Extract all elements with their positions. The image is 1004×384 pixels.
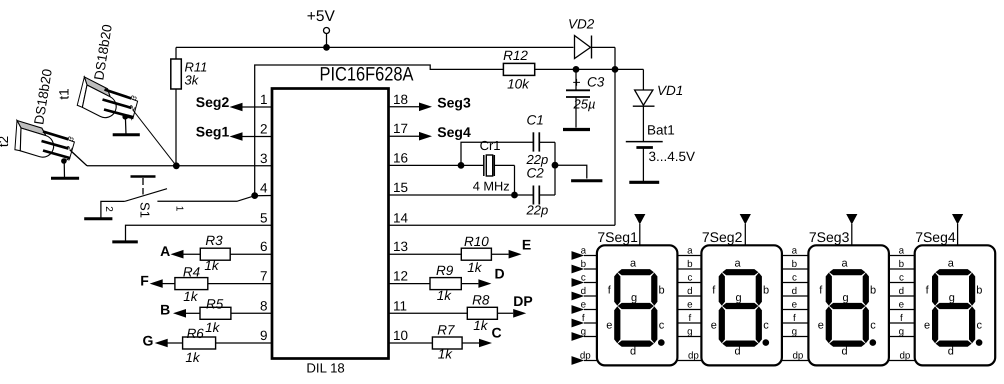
svg-text:e: e bbox=[818, 320, 824, 332]
display 7Seg1 common anode arrow bbox=[634, 214, 645, 245]
svg-text:e: e bbox=[711, 320, 717, 332]
wire 1-wire bus pin3 bbox=[70, 150, 272, 166]
svg-text:a: a bbox=[899, 245, 905, 256]
node label Seg3 bbox=[437, 94, 471, 110]
svg-text:a: a bbox=[948, 258, 955, 270]
svg-text:6: 6 bbox=[260, 239, 268, 254]
svg-text:1k: 1k bbox=[467, 260, 483, 275]
resistor R4 segment F bbox=[140, 265, 272, 305]
node label Seg2 bbox=[196, 94, 230, 110]
svg-text:c: c bbox=[792, 272, 797, 283]
t1 pin digits bbox=[125, 94, 139, 122]
svg-text:1k: 1k bbox=[185, 350, 201, 365]
svg-text:b: b bbox=[763, 285, 769, 297]
svg-text:7Seg4: 7Seg4 bbox=[915, 229, 956, 245]
svg-text:1: 1 bbox=[174, 206, 185, 212]
wire crystal right to pin15 bbox=[494, 165, 514, 195]
t2 pin digits bbox=[62, 135, 76, 163]
wire S1 to pin4 bbox=[157, 196, 272, 202]
svg-text:3...4.5V: 3...4.5V bbox=[649, 149, 696, 164]
svg-text:1k: 1k bbox=[205, 320, 221, 335]
svg-text:7Seg3: 7Seg3 bbox=[809, 229, 850, 245]
svg-text:Seg2: Seg2 bbox=[196, 94, 230, 110]
wire pin17 Seg4 bbox=[389, 132, 433, 141]
svg-text:22p: 22p bbox=[526, 203, 549, 218]
svg-text:17: 17 bbox=[393, 121, 408, 136]
node label Seg4 bbox=[437, 124, 471, 140]
svg-text:PIC16F628A: PIC16F628A bbox=[320, 64, 414, 86]
display 7Seg2 body bbox=[701, 229, 782, 366]
svg-text:b: b bbox=[976, 285, 982, 297]
label t1 bbox=[57, 88, 72, 99]
node pin4 junction bbox=[251, 192, 258, 199]
svg-text:e: e bbox=[899, 299, 905, 310]
svg-text:R6: R6 bbox=[187, 326, 205, 341]
node osc ground junction bbox=[552, 162, 559, 169]
resistor R6 segment G bbox=[143, 326, 272, 365]
svg-text:t2: t2 bbox=[0, 136, 11, 147]
node VDD cross bbox=[612, 66, 619, 73]
resistor R8 segment DP bbox=[389, 293, 533, 334]
svg-text:e: e bbox=[581, 299, 587, 310]
node bus junction bbox=[173, 162, 180, 169]
svg-text:d: d bbox=[687, 286, 692, 297]
wire +5V rail bbox=[176, 47, 574, 59]
display 7Seg3 input lines bbox=[782, 245, 809, 361]
svg-text:dp: dp bbox=[688, 350, 699, 361]
wire t1 ground lead bbox=[124, 117, 127, 135]
node pin16 junction bbox=[458, 162, 465, 169]
wire t2 data diagonal bbox=[70, 150, 87, 166]
diode VD2 bbox=[568, 17, 595, 59]
wire pin5 to ground bbox=[126, 225, 273, 240]
svg-text:+: + bbox=[573, 74, 581, 90]
svg-text:Bat1: Bat1 bbox=[647, 123, 675, 138]
svg-text:1k: 1k bbox=[204, 258, 220, 273]
svg-text:a: a bbox=[792, 245, 798, 256]
resistor R7 segment C bbox=[389, 323, 502, 362]
svg-text:g: g bbox=[735, 292, 741, 304]
display 7Seg3 body bbox=[808, 229, 889, 366]
temperature sensor t2 DS18b20 package bbox=[9, 121, 58, 161]
svg-text:d: d bbox=[841, 346, 847, 358]
svg-text:G: G bbox=[143, 333, 154, 349]
svg-text:1k: 1k bbox=[183, 289, 199, 304]
svg-text:R9: R9 bbox=[436, 263, 454, 278]
display 7Seg4 input lines bbox=[889, 245, 915, 361]
svg-text:A: A bbox=[160, 243, 170, 259]
svg-text:DP: DP bbox=[513, 293, 532, 309]
svg-text:12: 12 bbox=[393, 269, 408, 284]
svg-text:dp: dp bbox=[899, 350, 910, 361]
svg-text:18: 18 bbox=[393, 92, 408, 107]
svg-text:10: 10 bbox=[393, 328, 408, 343]
capacitor C2 bbox=[526, 166, 556, 218]
display 7Seg4 body bbox=[915, 229, 996, 366]
svg-text:DIL 18: DIL 18 bbox=[306, 360, 344, 375]
resistor R11 bbox=[171, 59, 208, 166]
svg-text:7Seg2: 7Seg2 bbox=[702, 229, 743, 245]
display 7Seg1 digit segments bbox=[606, 258, 665, 358]
label t1 DS18b20 bbox=[91, 23, 115, 81]
svg-text:3k: 3k bbox=[185, 73, 200, 88]
wire R12 to VD1 bbox=[535, 69, 644, 89]
ground S1 bbox=[84, 217, 112, 220]
svg-text:10k: 10k bbox=[507, 77, 530, 92]
svg-text:R5: R5 bbox=[206, 297, 224, 312]
label t2 DS18b20 bbox=[31, 68, 55, 126]
svg-text:R7: R7 bbox=[437, 323, 455, 338]
display 7Seg4 digit segments bbox=[924, 258, 983, 358]
svg-text:C: C bbox=[491, 325, 501, 341]
ground t2 bbox=[51, 177, 79, 180]
node C3 tap bbox=[573, 66, 580, 73]
svg-text:a: a bbox=[630, 258, 637, 270]
svg-text:d: d bbox=[630, 346, 636, 358]
resistor R5 segment B bbox=[160, 297, 272, 336]
resistor R12 bbox=[503, 48, 535, 92]
svg-text:1k: 1k bbox=[438, 347, 454, 362]
svg-text:F: F bbox=[140, 273, 149, 289]
node label Seg1 bbox=[196, 123, 230, 139]
wire osc to ground bbox=[555, 165, 587, 178]
svg-text:b: b bbox=[581, 259, 587, 270]
svg-text:g: g bbox=[899, 326, 904, 337]
wire t2 pins 1+3 tie bbox=[64, 140, 74, 161]
svg-text:1k: 1k bbox=[437, 288, 453, 303]
ground C3 bbox=[563, 128, 590, 131]
ground t1 bbox=[113, 133, 140, 136]
display 7Seg1 body bbox=[597, 229, 678, 366]
svg-text:a: a bbox=[581, 245, 587, 256]
wire t2 ground lead bbox=[63, 161, 65, 178]
svg-text:c: c bbox=[659, 320, 665, 332]
display 7Seg2 common anode arrow bbox=[740, 214, 751, 245]
svg-text:4 MHz: 4 MHz bbox=[473, 179, 510, 194]
resistor R10 segment E bbox=[389, 234, 532, 275]
svg-text:Seg1: Seg1 bbox=[196, 123, 230, 139]
svg-text:f: f bbox=[582, 313, 585, 324]
wire pin18 Seg3 bbox=[389, 103, 433, 112]
svg-text:d: d bbox=[899, 286, 904, 297]
wire VD2 cathode to VDD bbox=[592, 47, 616, 225]
svg-text:Seg4: Seg4 bbox=[437, 124, 471, 140]
display 7Seg1 input lines with arrows bbox=[572, 245, 597, 365]
svg-text:15: 15 bbox=[393, 180, 408, 195]
svg-text:11: 11 bbox=[393, 298, 407, 313]
svg-text:16: 16 bbox=[393, 150, 408, 165]
wire osc top bbox=[461, 142, 533, 165]
svg-text:e: e bbox=[687, 299, 693, 310]
svg-text:VD1: VD1 bbox=[657, 83, 683, 98]
svg-text:25µ: 25µ bbox=[573, 97, 596, 112]
svg-text:c: c bbox=[977, 320, 983, 332]
svg-text:7Seg1: 7Seg1 bbox=[597, 229, 638, 245]
svg-text:c: c bbox=[581, 272, 586, 283]
svg-text:t1: t1 bbox=[57, 88, 72, 99]
svg-text:g: g bbox=[949, 292, 955, 304]
pin numbers bbox=[260, 92, 409, 343]
node pin15 junction bbox=[511, 192, 518, 199]
svg-text:a: a bbox=[841, 258, 848, 270]
t1 leads bbox=[103, 90, 134, 118]
svg-text:c: c bbox=[763, 320, 769, 332]
wire pin15 bbox=[389, 194, 534, 196]
+5V supply terminal bbox=[307, 8, 336, 47]
svg-text:13: 13 bbox=[393, 239, 408, 254]
svg-text:c: c bbox=[687, 272, 692, 283]
svg-text:e: e bbox=[924, 320, 930, 332]
svg-text:R4: R4 bbox=[183, 265, 200, 280]
svg-text:B: B bbox=[160, 302, 170, 318]
svg-text:E: E bbox=[522, 237, 531, 253]
battery Bat1 bbox=[626, 123, 695, 182]
display 7Seg2 input lines bbox=[677, 245, 701, 361]
svg-text:C2: C2 bbox=[527, 166, 545, 181]
svg-text:a: a bbox=[687, 245, 693, 256]
svg-text:g: g bbox=[687, 326, 692, 337]
svg-text:Cr1: Cr1 bbox=[480, 138, 501, 153]
display 7Seg3 digit segments bbox=[818, 258, 877, 358]
diode VD1 bbox=[633, 83, 683, 141]
svg-text:g: g bbox=[792, 326, 797, 337]
wire S1 left contact to ground bbox=[101, 201, 125, 218]
label t2 bbox=[0, 136, 11, 147]
svg-text:R10: R10 bbox=[464, 234, 489, 249]
svg-text:VD2: VD2 bbox=[568, 17, 595, 32]
S1 contact digits bbox=[103, 206, 185, 213]
svg-text:Seg3: Seg3 bbox=[437, 94, 471, 110]
svg-text:c: c bbox=[870, 320, 876, 332]
node +5V junction bbox=[323, 44, 330, 51]
node t1 ground tie bbox=[122, 114, 128, 120]
wire pin1 Seg2 bbox=[230, 103, 273, 112]
svg-text:dp: dp bbox=[580, 350, 591, 361]
wire t1 pins 1+3 tie bbox=[125, 99, 137, 119]
svg-text:9: 9 bbox=[260, 328, 268, 343]
wire MCLR pull-up bbox=[255, 65, 504, 196]
svg-text:7: 7 bbox=[260, 269, 268, 284]
svg-text:R8: R8 bbox=[472, 293, 490, 308]
svg-text:2: 2 bbox=[103, 206, 114, 212]
svg-text:e: e bbox=[792, 299, 798, 310]
wire t1 data diagonal bbox=[133, 110, 177, 166]
svg-text:3: 3 bbox=[260, 151, 268, 166]
svg-text:1k: 1k bbox=[473, 318, 489, 333]
svg-text:b: b bbox=[687, 259, 693, 270]
svg-text:b: b bbox=[792, 259, 798, 270]
wire pin14 VDD bbox=[389, 224, 616, 226]
svg-text:8: 8 bbox=[260, 298, 268, 313]
svg-text:f: f bbox=[689, 313, 692, 324]
t2 leads bbox=[42, 132, 70, 159]
svg-text:4: 4 bbox=[260, 181, 268, 196]
svg-text:d: d bbox=[734, 346, 740, 358]
svg-text:f: f bbox=[793, 313, 796, 324]
display 7Seg3 common anode arrow bbox=[846, 214, 857, 245]
ground pin5 bbox=[112, 240, 138, 243]
svg-text:1: 1 bbox=[260, 92, 268, 107]
svg-text:R3: R3 bbox=[205, 233, 223, 248]
svg-text:c: c bbox=[899, 272, 904, 283]
svg-text:b: b bbox=[658, 285, 664, 297]
svg-text:b: b bbox=[899, 259, 905, 270]
svg-text:C3: C3 bbox=[587, 75, 605, 90]
ground oscillator bbox=[571, 179, 602, 182]
PIC16F628A U1 outline bbox=[272, 64, 414, 376]
svg-text:a: a bbox=[734, 258, 741, 270]
svg-text:+5V: +5V bbox=[307, 8, 336, 25]
svg-text:R12: R12 bbox=[503, 48, 528, 63]
capacitor C3 bbox=[566, 69, 605, 127]
svg-text:d: d bbox=[581, 286, 586, 297]
svg-text:d: d bbox=[948, 346, 954, 358]
capacitor C1 bbox=[526, 113, 556, 168]
svg-text:5: 5 bbox=[260, 210, 268, 225]
resistor R3 segment A bbox=[160, 233, 272, 273]
svg-text:f: f bbox=[900, 313, 903, 324]
svg-text:b: b bbox=[870, 285, 876, 297]
svg-text:2: 2 bbox=[260, 122, 268, 137]
svg-text:S1: S1 bbox=[138, 202, 153, 218]
svg-text:e: e bbox=[606, 320, 612, 332]
node t2 ground tie bbox=[61, 158, 67, 164]
svg-text:g: g bbox=[581, 326, 586, 337]
svg-text:D: D bbox=[494, 266, 504, 282]
svg-text:g: g bbox=[631, 292, 637, 304]
crystal Cr1 bbox=[473, 138, 510, 194]
temperature sensor t1 DS18b20 package bbox=[71, 77, 122, 122]
svg-text:14: 14 bbox=[393, 210, 409, 225]
wire pin2 Seg1 bbox=[230, 132, 273, 141]
ground Bat1 bbox=[629, 181, 659, 184]
resistor R9 segment D bbox=[389, 263, 505, 303]
svg-text:dp: dp bbox=[792, 350, 803, 361]
switch S1 button bbox=[125, 177, 167, 218]
svg-text:g: g bbox=[842, 292, 848, 304]
display 7Seg4 common anode arrow bbox=[952, 214, 963, 245]
svg-text:C1: C1 bbox=[527, 113, 544, 128]
wire C1-C2 right join bbox=[554, 142, 556, 195]
wire pin16 bbox=[389, 164, 484, 166]
svg-text:d: d bbox=[792, 286, 797, 297]
display 7Seg2 digit segments bbox=[711, 258, 770, 358]
